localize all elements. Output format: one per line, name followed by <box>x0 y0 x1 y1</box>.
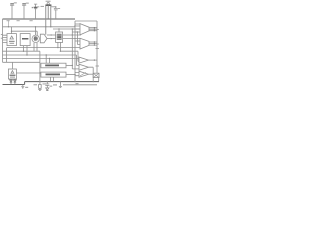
vertical bus x75 <box>74 21 76 82</box>
terminal VIN <box>41 1 52 7</box>
block U1 left pins <box>3 35 8 42</box>
driver trapezoid Q2 <box>80 38 89 49</box>
pin stub left 2 <box>1 37 3 39</box>
comparator T1 <box>79 57 89 63</box>
wire U3 bottom pins <box>58 42 61 51</box>
wire VIN feeds <box>46 5 51 35</box>
capacitor C4 <box>54 6 60 19</box>
wire y32 <box>72 32 77 45</box>
X box to rail stub <box>98 78 100 82</box>
wire y29 bus <box>53 28 80 30</box>
block A wires <box>66 64 72 66</box>
wire U3 net y51 right <box>60 51 79 61</box>
T3 output <box>89 73 94 75</box>
IC right box top <box>75 20 97 22</box>
comparator T3 <box>79 71 89 77</box>
trap2 inputs <box>7 41 80 62</box>
block A feedback <box>41 63 66 68</box>
block B wires <box>66 74 75 76</box>
node rail T2 <box>93 81 94 82</box>
IC bottom edge <box>3 61 40 63</box>
capacitor C3 polarized <box>32 4 40 19</box>
wire into block1 <box>11 27 13 34</box>
node on IC top <box>8 26 9 27</box>
ground symbol left <box>21 85 28 89</box>
trap2 outputs <box>89 41 97 46</box>
bottom rail jog <box>3 82 25 85</box>
wire top supply rail <box>3 18 76 20</box>
vertical bus x72.3 <box>71 29 73 69</box>
wire to C4 <box>51 6 56 8</box>
node dots buses <box>72 28 73 29</box>
wire U3 right pins <box>63 35 81 39</box>
capacitor C1 <box>10 2 17 19</box>
wire IC top edge <box>3 26 76 28</box>
block U2 oscillator <box>20 34 30 46</box>
capacitor C2 <box>22 3 29 19</box>
label left of C5 <box>43 83 47 84</box>
resistor R on x39.9 <box>39 85 42 89</box>
T1 output <box>89 59 98 60</box>
trap1 inputs <box>72 24 80 32</box>
wire U3 top pin <box>58 29 60 32</box>
label under rail 1 <box>7 20 10 21</box>
diode D2 <box>14 79 17 85</box>
diode D1 <box>10 79 13 85</box>
ground bar under x39.9 <box>38 90 41 91</box>
wire U4 top <box>11 62 13 69</box>
label under rail 2 <box>17 20 20 21</box>
wire left net y55 <box>3 46 80 66</box>
wire IC left edge <box>2 19 4 62</box>
wire U4 output <box>16 72 40 74</box>
T2 input 2 <box>72 68 79 70</box>
trap1 outputs <box>89 27 97 31</box>
T3 inputs <box>75 72 79 75</box>
ground stub mid rail <box>59 82 62 88</box>
block U3 logic <box>56 32 63 42</box>
wire left net y51 <box>3 43 40 51</box>
pin stubs right edge <box>96 30 100 67</box>
buffer flag <box>40 34 47 43</box>
node VIN rail junctions <box>45 18 46 19</box>
wire gear top drop <box>35 27 37 35</box>
block B feedback <box>41 72 66 77</box>
vertical x39.9 <box>39 51 41 89</box>
wire inner bus y31.2 <box>12 31 38 36</box>
bottom rail <box>25 81 99 83</box>
IC bottom edge right segment <box>63 84 97 86</box>
T2 output <box>89 67 94 81</box>
comparator T2 <box>79 64 89 70</box>
X box load <box>93 73 99 77</box>
wire arrow 2 <box>47 38 56 40</box>
pin stub left 1 <box>1 34 3 36</box>
wire arrow 1 <box>47 34 56 36</box>
driver trapezoid Q1 <box>80 24 89 35</box>
IC right edge <box>96 21 98 73</box>
wire left net y58 <box>3 58 80 63</box>
capacitor C5 <box>45 82 52 88</box>
block B bottom pins <box>50 77 53 82</box>
ground arrow C5 <box>46 88 49 91</box>
block U4 regulator <box>8 69 16 79</box>
block U1 reference <box>7 34 16 46</box>
label under rail 3 <box>30 20 33 21</box>
gear icon <box>32 35 39 42</box>
label under rail right <box>76 83 79 84</box>
wire rail drop x8.5 <box>8 19 10 27</box>
